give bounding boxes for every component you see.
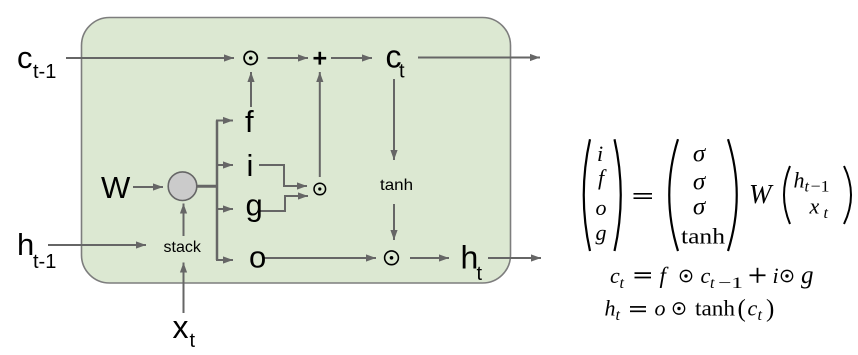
svg-text:h: h bbox=[605, 296, 616, 321]
svg-text:t: t bbox=[710, 275, 715, 292]
svg-text:t: t bbox=[758, 307, 763, 324]
svg-text:i: i bbox=[773, 263, 779, 288]
svg-text:tanh: tanh bbox=[380, 177, 413, 194]
svg-text:o: o bbox=[655, 296, 666, 321]
svg-text:t: t bbox=[824, 205, 829, 222]
svg-text:f: f bbox=[245, 104, 254, 139]
svg-text:h: h bbox=[794, 168, 805, 193]
svg-text:i: i bbox=[597, 141, 603, 166]
svg-text:σ: σ bbox=[693, 141, 707, 168]
svg-text:i: i bbox=[247, 148, 254, 183]
svg-text:c: c bbox=[610, 263, 620, 288]
svg-text:t: t bbox=[399, 61, 405, 83]
svg-text:(: ( bbox=[738, 296, 746, 323]
svg-text:t: t bbox=[190, 330, 196, 352]
svg-text:c: c bbox=[748, 296, 758, 321]
svg-text:W: W bbox=[749, 179, 774, 209]
svg-text:o: o bbox=[249, 240, 266, 275]
svg-text:t-1: t-1 bbox=[33, 61, 56, 83]
svg-text:o: o bbox=[596, 195, 607, 220]
svg-text:g: g bbox=[801, 262, 814, 289]
svg-text:tanh: tanh bbox=[681, 224, 725, 249]
svg-text:σ: σ bbox=[693, 194, 707, 221]
svg-text:f: f bbox=[660, 263, 670, 288]
svg-text:c: c bbox=[701, 263, 711, 288]
svg-text:stack: stack bbox=[164, 239, 202, 256]
svg-text:x: x bbox=[809, 194, 820, 219]
svg-text:f: f bbox=[598, 165, 607, 190]
svg-text:g: g bbox=[596, 220, 607, 245]
svg-text:−1: −1 bbox=[718, 275, 743, 292]
svg-text:t-1: t-1 bbox=[33, 251, 56, 273]
svg-text:t: t bbox=[620, 275, 625, 292]
svg-text:t: t bbox=[616, 307, 621, 324]
svg-text:): ) bbox=[766, 296, 774, 323]
svg-text:g: g bbox=[246, 188, 263, 223]
svg-text:σ: σ bbox=[693, 169, 707, 196]
svg-text:tanh: tanh bbox=[695, 296, 735, 321]
svg-text:x: x bbox=[173, 309, 189, 345]
svg-text:t: t bbox=[477, 263, 483, 285]
svg-text:W: W bbox=[101, 170, 131, 205]
svg-text:h: h bbox=[17, 227, 34, 262]
svg-text:c: c bbox=[17, 40, 33, 75]
